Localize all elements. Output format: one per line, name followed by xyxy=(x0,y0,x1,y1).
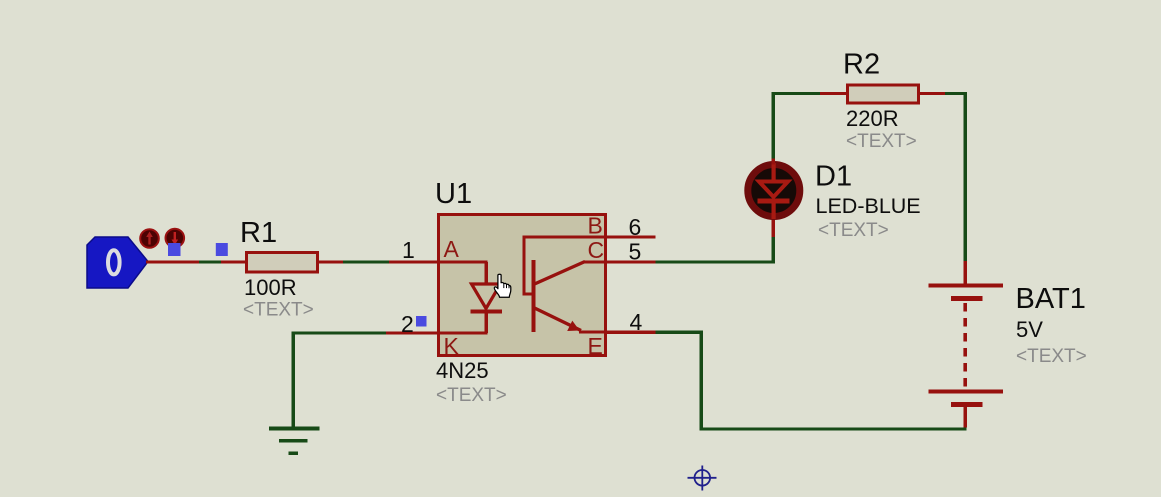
svg-text:C: C xyxy=(588,237,605,263)
U1 internal LED cathode wire xyxy=(440,332,488,335)
wire: pin4 horizontal (green) xyxy=(656,331,704,335)
svg-text:5V: 5V xyxy=(1016,317,1043,342)
logic state input 0 xyxy=(87,237,148,288)
node marker blue square 2 xyxy=(216,243,228,256)
wire: D1 cathode stub (red) xyxy=(772,216,776,237)
wire: green segment to U1 xyxy=(343,261,389,264)
wire: right vertical down to battery (green) xyxy=(964,92,968,261)
svg-text:220R: 220R xyxy=(846,106,899,131)
svg-text:<TEXT>: <TEXT> xyxy=(846,131,917,152)
optocoupler U1 body xyxy=(439,215,606,356)
svg-text:5: 5 xyxy=(629,239,642,265)
svg-text:<TEXT>: <TEXT> xyxy=(1016,346,1087,367)
svg-text:<TEXT>: <TEXT> xyxy=(243,300,314,321)
wire: ground net vertical (green) xyxy=(292,333,296,427)
svg-text:<TEXT>: <TEXT> xyxy=(436,385,507,406)
U1 phototransistor base bar xyxy=(532,260,536,332)
wire: battery top stub (red) xyxy=(964,261,968,284)
svg-text:R2: R2 xyxy=(843,49,880,81)
svg-text:<TEXT>: <TEXT> xyxy=(818,220,889,241)
wire: logic state pin (red) xyxy=(146,261,199,264)
wire: D1 anode stub up (red) xyxy=(772,159,776,165)
svg-text:LED-BLUE: LED-BLUE xyxy=(816,194,921,218)
svg-text:4N25: 4N25 xyxy=(436,358,489,383)
svg-text:4: 4 xyxy=(630,309,643,335)
wire: pin4 down vertical (green) xyxy=(700,332,704,431)
wire: pin5 to D1 (green) xyxy=(656,261,776,264)
resistor R1 xyxy=(247,253,318,273)
wire: bottom horizontal to battery (green) xyxy=(700,428,967,431)
svg-text:BAT1: BAT1 xyxy=(1016,283,1086,315)
svg-text:K: K xyxy=(444,333,460,359)
svg-text:D1: D1 xyxy=(815,161,852,193)
svg-text:6: 6 xyxy=(629,214,642,240)
svg-text:R1: R1 xyxy=(240,217,277,249)
battery BAT1 xyxy=(929,284,1004,428)
resistor R2 xyxy=(848,85,919,103)
LED D1 xyxy=(748,163,800,219)
svg-text:100R: 100R xyxy=(244,275,297,300)
svg-text:B: B xyxy=(588,213,603,239)
wire: U1 pin 4 stub (red) xyxy=(607,331,656,335)
wire: ground net horizontal (green) xyxy=(292,332,387,335)
wire: green segment to R1 xyxy=(199,261,221,264)
wire: R2 right horizontal (green) xyxy=(945,92,967,95)
node marker blue square 1 xyxy=(168,243,181,256)
wire: U1 pin 1 stub (red) xyxy=(389,261,437,264)
ground symbol xyxy=(269,427,320,456)
svg-text:U1: U1 xyxy=(435,178,472,210)
wire: R2 left horizontal (green) xyxy=(772,92,821,95)
svg-text:E: E xyxy=(588,333,603,359)
svg-text:A: A xyxy=(444,236,460,262)
mouse cursor (hand pointer) xyxy=(494,274,511,297)
wire: U1 pin 6 stub (red) xyxy=(607,236,656,239)
U1 phototransistor collector xyxy=(535,261,608,285)
node marker blue square pin2 xyxy=(416,316,427,327)
wire: U1 pin 5 stub (red) xyxy=(607,261,656,264)
wire: vertical up to R2 (green) xyxy=(772,93,776,159)
origin crosshair marker xyxy=(688,466,717,491)
toggle button up xyxy=(140,229,159,248)
wire: R1 left pin (red) xyxy=(221,261,246,264)
wire: D1 cathode vertical (green) xyxy=(772,237,776,264)
U1 phototransistor emitter xyxy=(535,308,608,334)
wire: U1 pin 2 stub (red) xyxy=(386,332,437,335)
U1 internal LED anode wire xyxy=(440,261,488,285)
toggle button down xyxy=(166,229,185,248)
svg-text:1: 1 xyxy=(402,237,415,263)
wire: R1 right pin (red) xyxy=(319,261,343,264)
wire: R2 left pin (red) xyxy=(820,92,846,95)
svg-text:2: 2 xyxy=(401,311,414,337)
wire: R2 right pin (red) xyxy=(920,92,945,95)
U1 phototransistor base bracket xyxy=(523,236,608,296)
U1 internal LED diode xyxy=(471,284,503,333)
